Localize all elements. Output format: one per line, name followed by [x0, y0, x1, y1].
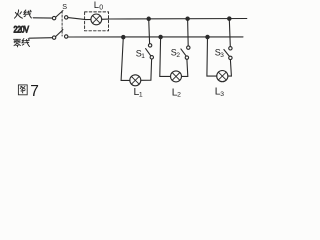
switch S1 bottom contact	[150, 56, 153, 59]
switch S1 top contact	[148, 44, 151, 47]
lamp L1 (circle with cross)	[130, 75, 141, 86]
switch S2 top contact	[187, 46, 190, 49]
label S3	[215, 48, 225, 60]
wire: neutral lead from 零线 to switch S	[29, 37, 52, 40]
wire: out of lamp L0 (right)	[102, 18, 109, 20]
label L3	[215, 86, 224, 97]
switch S1 blade	[146, 49, 151, 56]
wire: S1 to lamp L1	[141, 59, 152, 80]
switch S bottom contact right	[65, 35, 68, 38]
node: junction dot neutral rail / branch 2 return	[159, 35, 162, 38]
label L2	[172, 87, 181, 98]
wire: branch 3 drop from live rail through crossing	[229, 19, 230, 47]
switch S2 bottom contact	[185, 56, 188, 59]
wire: lamp L1 return to neutral rail	[121, 37, 130, 80]
wire: lamp L3 return to neutral rail	[207, 37, 217, 76]
svg-text:1: 1	[139, 91, 143, 98]
svg-text:3: 3	[220, 52, 224, 59]
label 图7 (figure 7)	[18, 85, 27, 95]
switch S3 bottom contact	[229, 56, 232, 59]
lamp L2 (circle with cross)	[171, 71, 182, 82]
switch S top contact right	[65, 16, 68, 19]
label 零线 (neutral wire)	[14, 39, 30, 47]
svg-text:7: 7	[30, 83, 39, 100]
switch S bottom contact left	[52, 36, 55, 39]
wire: live lead from 火线 to switch S	[33, 17, 52, 19]
switch S bottom blade	[56, 30, 63, 37]
switch S top blade	[56, 11, 63, 18]
switch S3 top contact	[229, 47, 232, 50]
node: junction dot live rail / branch 2	[186, 17, 189, 20]
svg-text:3: 3	[220, 91, 224, 98]
svg-text:220V: 220V	[13, 25, 29, 35]
switch S gang link (dashed)	[61, 11, 63, 36]
switch S (double-pole) top contact left	[52, 16, 55, 19]
switch S2 blade	[181, 49, 186, 56]
node: junction dot neutral rail / branch 1 return	[122, 35, 125, 38]
svg-text:S: S	[62, 2, 67, 11]
svg-text:2: 2	[177, 92, 181, 99]
lamp L3 (circle with cross)	[217, 71, 228, 82]
node: junction dot live rail / branch 3	[228, 17, 231, 20]
label S2	[171, 47, 181, 59]
switch S3 blade	[224, 50, 229, 57]
wire: neutral rail from switch to right end	[68, 36, 243, 38]
dashed enclosure box around indicator lamp L0	[85, 12, 109, 31]
wire: into lamp L0 (left)	[85, 19, 91, 21]
wire: lamp L2 return to neutral rail	[160, 37, 171, 76]
svg-text:2: 2	[176, 52, 180, 59]
label L1	[134, 87, 143, 98]
label 火线 (live wire)	[15, 10, 32, 18]
label L0	[94, 0, 103, 11]
wire: S3 to lamp L3	[228, 60, 232, 77]
svg-text:1: 1	[141, 53, 145, 60]
wire: live rail from box to right end	[109, 18, 247, 21]
label S1	[136, 48, 146, 60]
node: junction dot neutral rail / branch 3 return	[206, 35, 209, 38]
lamp L0 (circle with cross)	[91, 14, 102, 25]
svg-text:0: 0	[99, 4, 103, 11]
wire: S2 to lamp L2	[182, 59, 188, 76]
wire: switch S to indicator box	[68, 18, 85, 20]
wire: branch 2 drop from live rail through crossing	[187, 19, 190, 46]
node: junction dot live rail / branch 1	[147, 17, 150, 20]
wire: branch 1 drop from live rail through crossing	[148, 19, 151, 44]
